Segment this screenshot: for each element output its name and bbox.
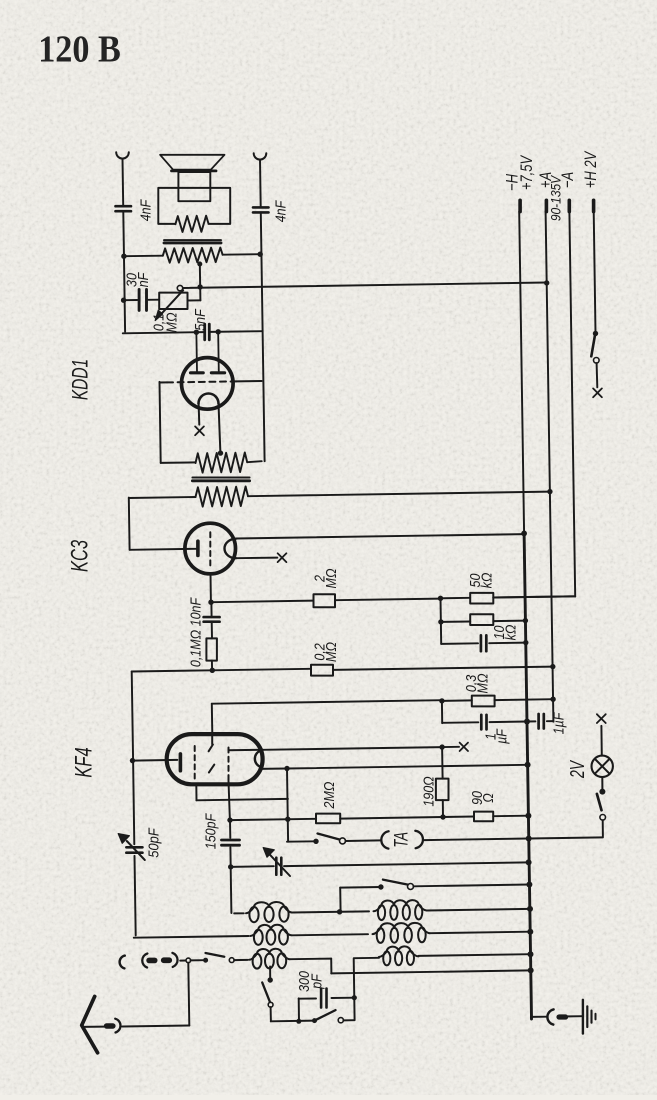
svg-text:kΩ: kΩ — [479, 573, 495, 589]
svg-text:120 B: 120 B — [38, 28, 121, 70]
svg-text:TA: TA — [390, 832, 412, 848]
svg-text:µF: µF — [493, 728, 509, 744]
svg-text:+7,5V: +7,5V — [517, 154, 536, 190]
svg-text:kΩ: kΩ — [503, 625, 519, 641]
svg-text:−A: −A — [558, 172, 577, 188]
svg-text:KC3: KC3 — [67, 539, 94, 572]
svg-text:Ω: Ω — [480, 793, 496, 803]
svg-text:KDD1: KDD1 — [69, 359, 93, 400]
svg-text:50pF: 50pF — [145, 827, 162, 858]
svg-text:MΩ: MΩ — [323, 569, 339, 589]
svg-text:4nF: 4nF — [137, 199, 153, 221]
svg-text:0,1MΩ 10nF: 0,1MΩ 10nF — [187, 597, 203, 667]
svg-text:MΩ: MΩ — [163, 313, 179, 333]
svg-text:+H 2V: +H 2V — [581, 150, 600, 188]
svg-text:pF: pF — [309, 973, 325, 989]
svg-text:2MΩ: 2MΩ — [321, 782, 337, 810]
svg-text:150pF: 150pF — [202, 813, 218, 849]
svg-text:KF4: KF4 — [70, 747, 97, 777]
svg-text:MΩ: MΩ — [475, 674, 491, 694]
svg-text:MΩ: MΩ — [323, 642, 339, 662]
svg-text:nF: nF — [135, 272, 151, 287]
svg-text:190Ω: 190Ω — [420, 776, 436, 806]
svg-text:5nF: 5nF — [192, 309, 208, 331]
svg-text:2V: 2V — [565, 760, 588, 779]
svg-text:4nF: 4nF — [272, 200, 288, 222]
